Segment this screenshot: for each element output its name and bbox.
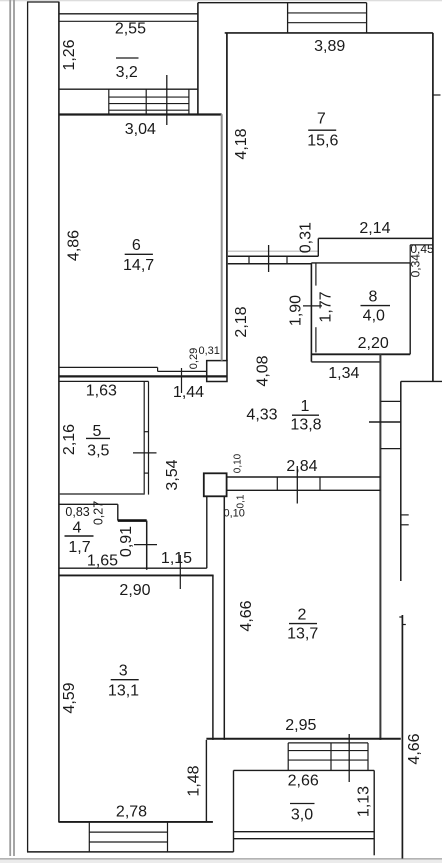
svg-text:1,34: 1,34 xyxy=(328,365,359,382)
svg-text:0,45: 0,45 xyxy=(410,242,434,256)
svg-text:1,26: 1,26 xyxy=(61,39,78,70)
svg-text:0,27: 0,27 xyxy=(91,501,105,525)
svg-text:14,7: 14,7 xyxy=(123,257,154,274)
svg-text:4: 4 xyxy=(73,520,82,537)
svg-text:0,83: 0,83 xyxy=(65,505,89,519)
svg-text:1,63: 1,63 xyxy=(86,383,117,400)
svg-text:4,18: 4,18 xyxy=(233,128,250,159)
svg-text:13,8: 13,8 xyxy=(290,417,321,434)
svg-text:4,66: 4,66 xyxy=(406,733,423,764)
svg-text:3: 3 xyxy=(119,663,128,680)
svg-text:0,34: 0,34 xyxy=(408,254,422,278)
svg-text:6: 6 xyxy=(132,237,141,254)
svg-text:2,20: 2,20 xyxy=(358,335,389,352)
svg-text:7: 7 xyxy=(317,111,326,128)
svg-text:15,6: 15,6 xyxy=(307,133,338,150)
svg-text:2,14: 2,14 xyxy=(359,220,390,237)
svg-text:3,89: 3,89 xyxy=(314,38,345,55)
svg-text:1,90: 1,90 xyxy=(288,295,305,326)
svg-text:4,66: 4,66 xyxy=(238,600,255,631)
svg-text:3,54: 3,54 xyxy=(164,459,181,490)
svg-text:4,59: 4,59 xyxy=(61,682,78,713)
svg-text:3,5: 3,5 xyxy=(87,443,109,460)
svg-text:13,7: 13,7 xyxy=(287,626,318,643)
svg-text:1,44: 1,44 xyxy=(173,384,204,401)
svg-text:1,65: 1,65 xyxy=(87,553,118,570)
svg-text:5: 5 xyxy=(93,423,102,440)
svg-text:0,31: 0,31 xyxy=(198,345,219,357)
svg-text:0,10: 0,10 xyxy=(233,453,244,473)
svg-text:4,08: 4,08 xyxy=(255,355,272,386)
svg-text:0,91: 0,91 xyxy=(118,526,135,557)
svg-text:0,31: 0,31 xyxy=(298,222,315,253)
svg-text:1,13: 1,13 xyxy=(356,786,373,817)
svg-text:1,48: 1,48 xyxy=(186,765,203,796)
svg-text:4,86: 4,86 xyxy=(66,230,83,261)
svg-text:2,16: 2,16 xyxy=(61,424,78,455)
svg-text:2: 2 xyxy=(298,606,307,623)
svg-text:2,95: 2,95 xyxy=(285,717,316,734)
svg-text:4,33: 4,33 xyxy=(246,407,277,424)
svg-text:0,10: 0,10 xyxy=(223,508,244,520)
svg-text:2,78: 2,78 xyxy=(116,803,147,820)
svg-text:3,0: 3,0 xyxy=(291,807,313,824)
svg-text:0,1: 0,1 xyxy=(235,494,246,508)
svg-text:2,84: 2,84 xyxy=(286,458,317,475)
svg-text:1,15: 1,15 xyxy=(161,550,192,567)
svg-text:4,0: 4,0 xyxy=(363,308,385,325)
svg-text:1,77: 1,77 xyxy=(318,291,335,322)
svg-text:8: 8 xyxy=(368,289,377,306)
svg-text:1: 1 xyxy=(301,398,310,415)
svg-text:2,55: 2,55 xyxy=(115,21,146,38)
svg-text:3,2: 3,2 xyxy=(116,64,138,81)
svg-text:2,66: 2,66 xyxy=(288,773,319,790)
svg-text:2,18: 2,18 xyxy=(233,306,250,337)
svg-text:3,04: 3,04 xyxy=(125,121,156,138)
svg-text:2,90: 2,90 xyxy=(119,582,150,599)
svg-text:13,1: 13,1 xyxy=(108,683,139,700)
